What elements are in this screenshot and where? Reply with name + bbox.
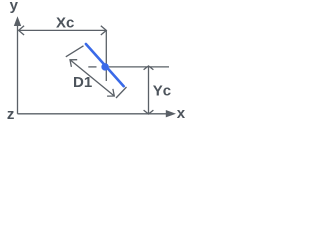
y axis xyxy=(17,25,19,114)
x axis arrowhead xyxy=(166,110,176,117)
svg-text:x: x xyxy=(177,105,186,122)
Xc right arrowhead xyxy=(101,26,107,35)
Yc bottom arrowhead xyxy=(144,110,154,114)
extension line horizontal right segment xyxy=(109,66,169,68)
Yc top arrowhead xyxy=(144,66,154,70)
D1 dimension double arrow xyxy=(70,60,114,96)
extension line vertical from centroid to Xc dimension xyxy=(105,30,107,81)
x axis xyxy=(18,113,167,115)
dimension Yc line xyxy=(144,66,154,114)
D1 dimension tick bottom xyxy=(116,87,127,98)
y axis arrowhead xyxy=(14,16,21,26)
svg-text:Yc: Yc xyxy=(153,83,171,100)
svg-text:D1: D1 xyxy=(73,74,92,91)
extension line horizontal from centroid to Yc dimension xyxy=(88,66,96,68)
svg-text:z: z xyxy=(7,106,15,123)
svg-text:y: y xyxy=(10,0,19,14)
D1 dimension tick top xyxy=(66,46,84,57)
dimension Xc line xyxy=(19,26,107,35)
centroid marker (blue square) xyxy=(101,63,109,71)
component D1 body (blue line) xyxy=(86,44,124,86)
svg-text:Xc: Xc xyxy=(56,14,74,31)
Xc left arrowhead xyxy=(19,26,25,35)
